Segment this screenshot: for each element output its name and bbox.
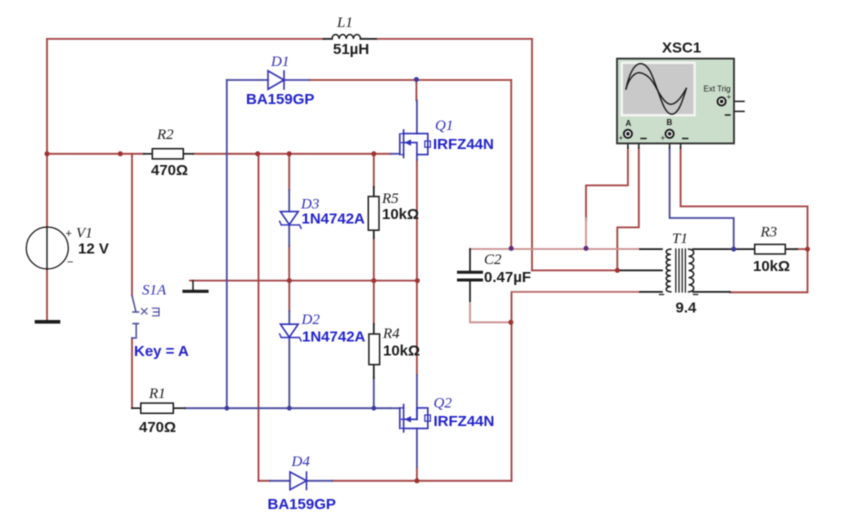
svg-text:D4: D4 (291, 454, 311, 470)
svg-text:+: + (619, 134, 624, 143)
svg-text:C2: C2 (484, 252, 502, 268)
svg-text:1N4742A: 1N4742A (302, 329, 366, 346)
svg-text:12 V: 12 V (78, 241, 109, 258)
svg-text:1N4742A: 1N4742A (302, 211, 366, 228)
svg-text:A: A (626, 119, 632, 128)
svg-text:B: B (667, 118, 673, 127)
svg-text:Q2: Q2 (434, 396, 453, 412)
svg-text:R1: R1 (148, 386, 166, 402)
svg-text:470Ω: 470Ω (139, 419, 176, 436)
svg-text:+: + (661, 134, 666, 143)
svg-text:IRFZ44N: IRFZ44N (433, 136, 494, 153)
svg-text:+: + (727, 93, 732, 102)
svg-text:10kΩ: 10kΩ (753, 258, 790, 275)
svg-text:−: − (67, 257, 73, 269)
svg-text:9.4: 9.4 (676, 300, 698, 317)
svg-text:51µH: 51µH (333, 41, 369, 58)
svg-text:R4: R4 (382, 326, 400, 342)
svg-text:10kΩ: 10kΩ (382, 206, 419, 223)
svg-text:Key = A: Key = A (134, 343, 189, 360)
svg-text:IRFZ44N: IRFZ44N (434, 413, 495, 430)
svg-text:470Ω: 470Ω (151, 162, 188, 179)
svg-text:BA159GP: BA159GP (268, 496, 336, 513)
svg-text:BA159GP: BA159GP (246, 91, 314, 108)
svg-text:S1A: S1A (142, 283, 167, 299)
svg-text:10kΩ: 10kΩ (383, 343, 420, 360)
svg-text:D1: D1 (270, 54, 289, 70)
svg-text:0.47µF: 0.47µF (484, 269, 531, 286)
svg-text:L1: L1 (336, 15, 353, 31)
svg-text:+: + (66, 228, 72, 240)
svg-text:R5: R5 (381, 191, 399, 207)
svg-text:T1: T1 (672, 231, 688, 247)
svg-text:D2: D2 (301, 312, 321, 328)
svg-text:Q1: Q1 (435, 118, 453, 134)
svg-text:V1: V1 (76, 226, 93, 242)
svg-text:R2: R2 (156, 127, 174, 143)
svg-text:XSC1: XSC1 (662, 40, 701, 57)
svg-text:R3: R3 (760, 225, 778, 241)
